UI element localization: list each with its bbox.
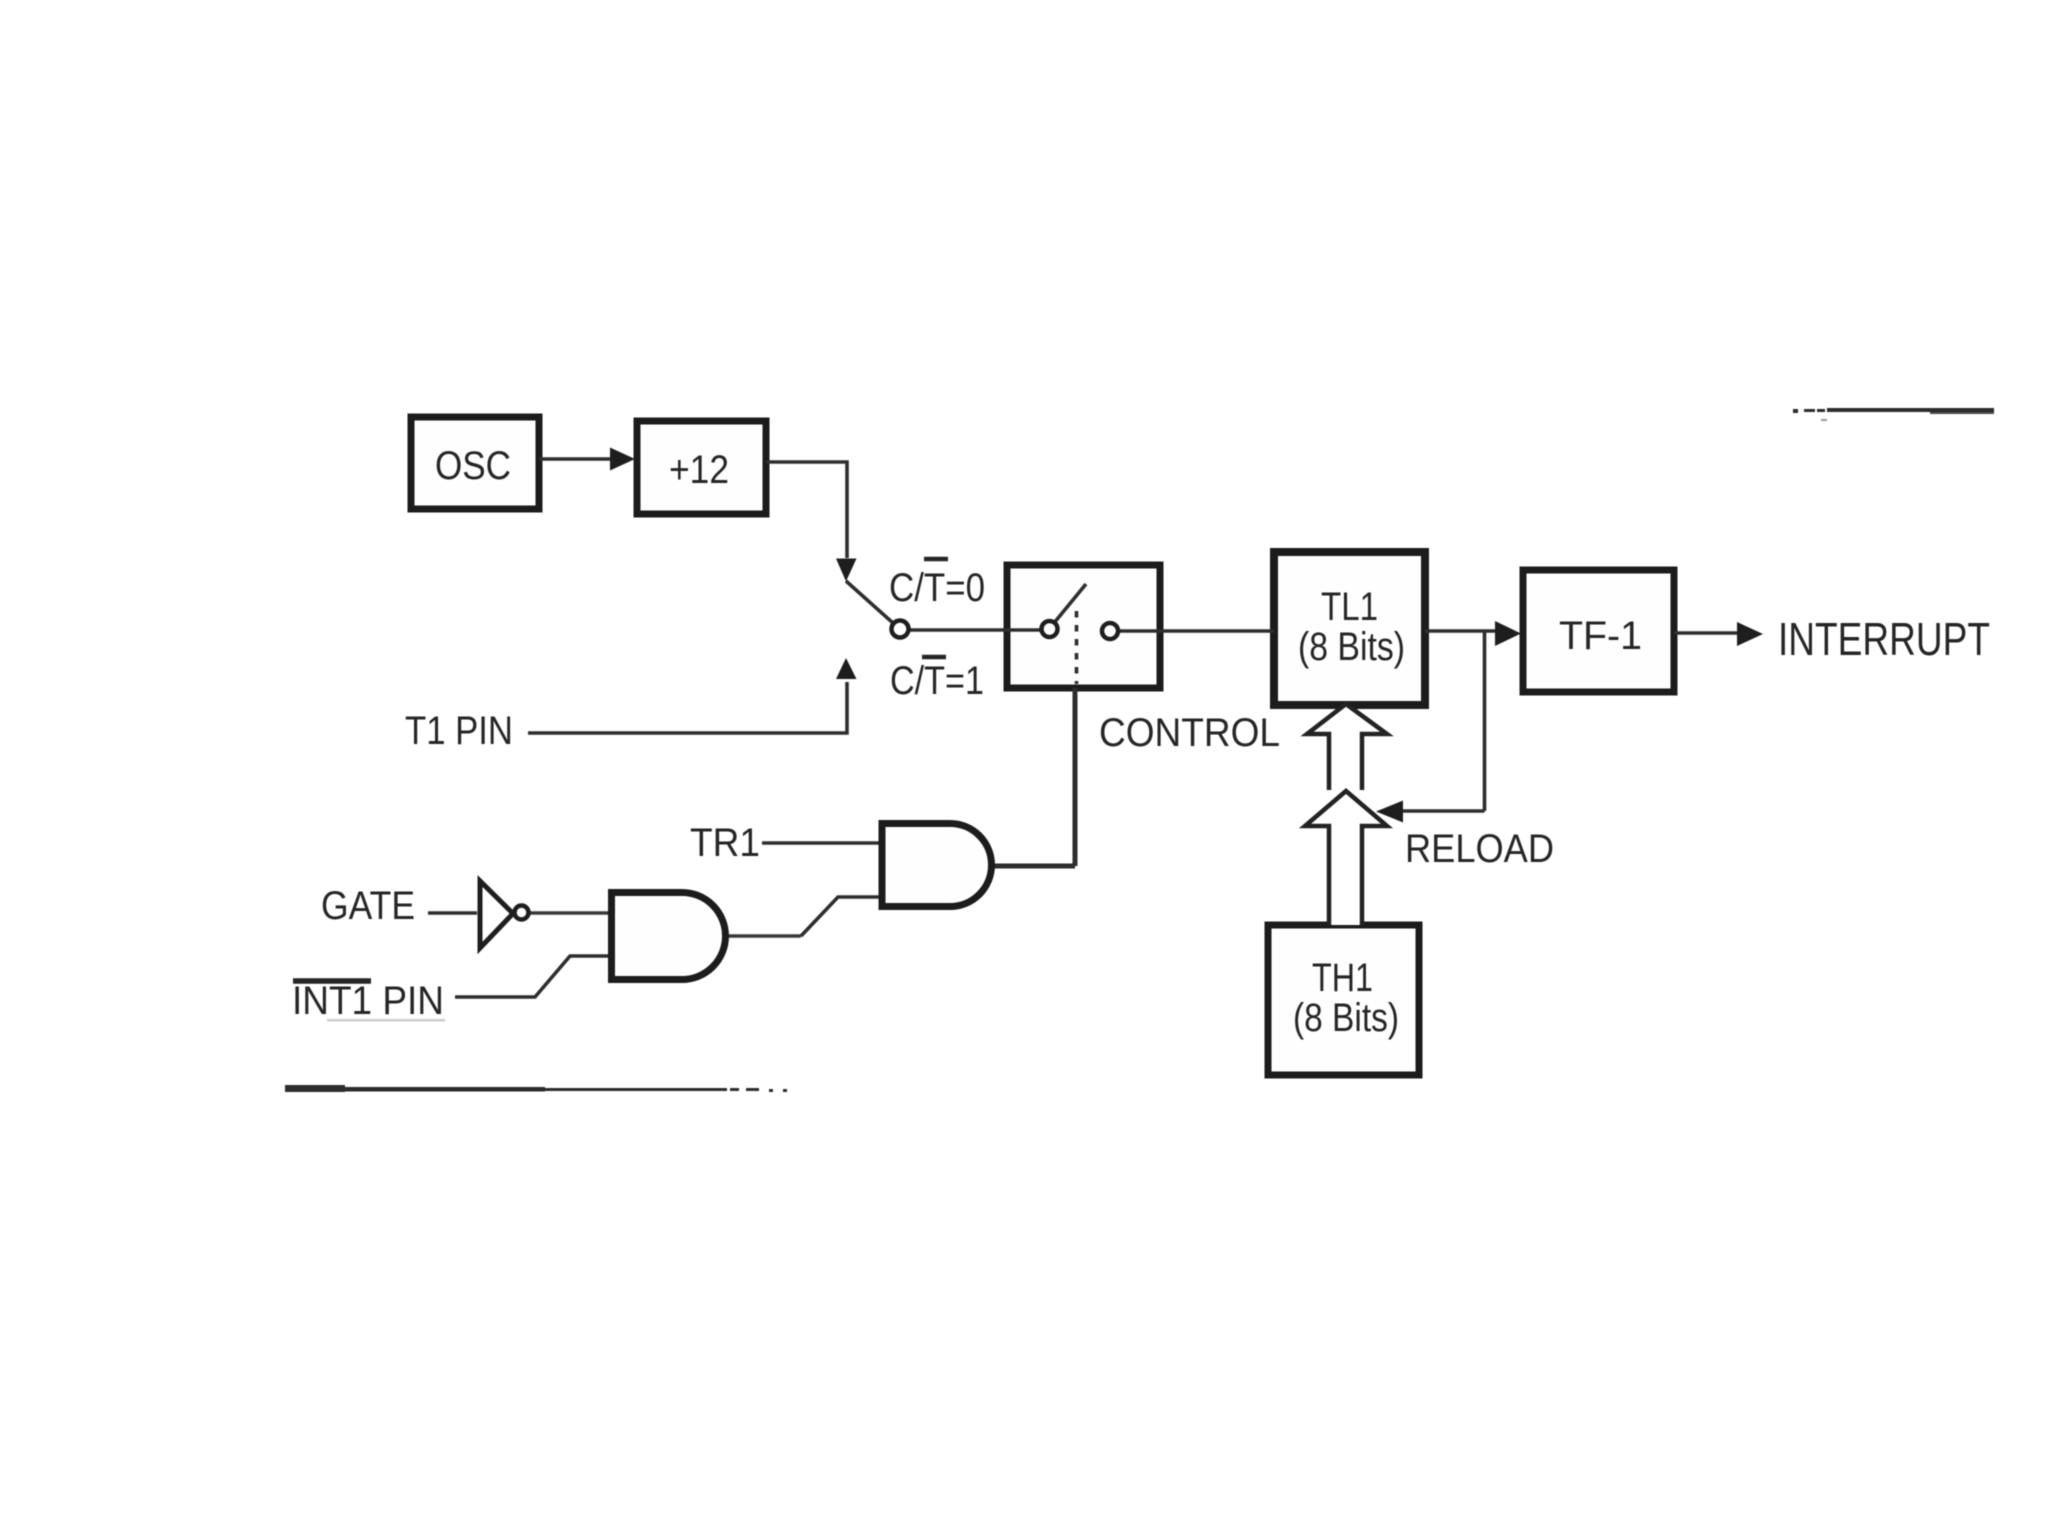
svg-text:TH1: TH1	[1312, 956, 1373, 1000]
svg-text:CONTROL: CONTROL	[1099, 711, 1280, 755]
svg-text:INTERRUPT: INTERRUPT	[1778, 613, 1990, 665]
svg-text:(8 Bits): (8 Bits)	[1293, 996, 1399, 1040]
svg-text:(8 Bits): (8 Bits)	[1298, 625, 1405, 669]
svg-text:C/T=0: C/T=0	[889, 566, 985, 610]
svg-text:INT1 PIN: INT1 PIN	[292, 979, 444, 1023]
svg-text:C/T=1: C/T=1	[890, 659, 984, 703]
svg-text:TR1: TR1	[690, 821, 760, 865]
svg-text:T1 PIN: T1 PIN	[405, 709, 513, 753]
svg-text:GATE: GATE	[321, 884, 415, 928]
svg-text:OSC: OSC	[435, 444, 511, 488]
svg-text:RELOAD: RELOAD	[1405, 827, 1554, 871]
svg-text:TF-1: TF-1	[1559, 614, 1642, 658]
svg-text:+12: +12	[669, 448, 729, 492]
svg-text:TL1: TL1	[1321, 585, 1378, 629]
